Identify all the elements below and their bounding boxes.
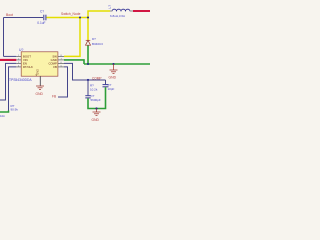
svg-text:FB: FB xyxy=(53,65,57,69)
capacitor C? (boot cap) xyxy=(44,15,46,21)
diode D? xyxy=(86,40,91,45)
junction xyxy=(87,63,89,65)
IC pin stub bottom (pad) xyxy=(39,76,41,86)
svg-text:5600pF: 5600pF xyxy=(91,98,101,102)
wire VOUT (red right) xyxy=(133,10,150,12)
wire Boot net: to BOOT pin xyxy=(4,55,17,57)
svg-text:D?: D? xyxy=(92,37,96,41)
capacitor C? (comp parallel, right branch) xyxy=(105,80,107,84)
svg-text:COMP: COMP xyxy=(92,76,102,80)
IC pin stubs right xyxy=(58,56,64,67)
wire COMP xyxy=(64,63,106,80)
svg-text:GND: GND xyxy=(92,118,100,122)
svg-text:FB: FB xyxy=(52,94,56,98)
junction xyxy=(87,16,89,18)
wire to diode / inductor xyxy=(88,11,110,40)
wire SW pin riser xyxy=(64,18,80,57)
wire RT resistor to gnd xyxy=(0,111,9,113)
wire Boot net: left vertical xyxy=(3,18,5,57)
svg-text:U?: U? xyxy=(19,48,23,52)
svg-text:Switch_Node: Switch_Node xyxy=(61,12,81,16)
svg-text:6.8uH,3.6A: 6.8uH,3.6A xyxy=(110,14,125,18)
junction xyxy=(112,63,114,65)
pin numbers xyxy=(18,55,63,68)
svg-text:10n: 10n xyxy=(0,114,5,118)
ground symbol comp xyxy=(93,109,101,116)
wire EN xyxy=(0,63,16,100)
wire FB xyxy=(58,67,68,97)
svg-text:10.2k: 10.2k xyxy=(90,87,98,91)
junction xyxy=(79,16,81,18)
svg-text:B340C3: B340C3 xyxy=(92,42,103,46)
wire gnd rail xyxy=(84,63,150,65)
svg-text:Boot: Boot xyxy=(6,13,13,17)
capacitor C? (comp series) xyxy=(85,96,90,98)
svg-text:RT/CLK: RT/CLK xyxy=(23,65,33,69)
svg-text:10pF: 10pF xyxy=(108,87,115,91)
svg-text:C?: C? xyxy=(40,9,44,13)
svg-text:90.9k: 90.9k xyxy=(11,108,19,112)
junction xyxy=(95,107,97,109)
wire GND pin xyxy=(64,60,84,64)
wire Switch_Node horizontal xyxy=(47,17,89,19)
resistor R? (comp) xyxy=(87,80,89,95)
junction xyxy=(87,79,89,81)
svg-text:L?: L? xyxy=(108,5,112,9)
svg-text:GND: GND xyxy=(36,69,39,75)
wire VIN (red left) xyxy=(0,59,16,61)
resistor R? (RT) xyxy=(8,102,10,111)
wire Boot net: top horizontal xyxy=(4,17,44,19)
IC U1 TPS54340 body xyxy=(21,52,58,76)
svg-text:GND: GND xyxy=(36,92,44,96)
IC pin names xyxy=(23,55,57,77)
svg-text:TPS54340DDA: TPS54340DDA xyxy=(9,78,32,82)
wire RT/CLK xyxy=(9,67,17,102)
inductor L? xyxy=(112,9,130,11)
wire comp caps to gnd xyxy=(88,87,106,108)
ground symbol under IC xyxy=(36,86,44,90)
IC pin stubs left xyxy=(16,56,21,67)
ground symbol right xyxy=(110,64,118,74)
svg-text:GND: GND xyxy=(109,75,117,79)
wire diode to gnd rail xyxy=(87,46,89,65)
svg-text:0.1uF: 0.1uF xyxy=(37,21,45,25)
